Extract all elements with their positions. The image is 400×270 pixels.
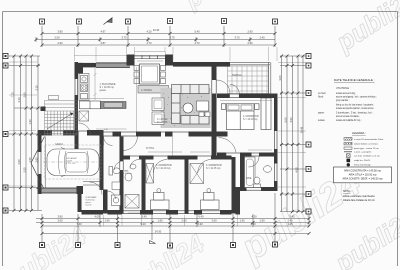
entry door arc xyxy=(90,182,103,195)
room labels xyxy=(55,74,259,180)
interior spine wall segments xyxy=(113,132,122,137)
bedroom3 wardrobe xyxy=(261,98,271,130)
canopy chevron west xyxy=(31,137,45,191)
legend header xyxy=(352,131,366,135)
garage centerline xyxy=(43,161,100,163)
top dimension tick marks xyxy=(35,32,277,47)
legend symbol partition xyxy=(344,147,352,149)
column grid markers top row xyxy=(40,19,278,25)
living media wall xyxy=(189,132,228,137)
svg-text:4.95: 4.95 xyxy=(295,167,299,173)
lintel lines over interior doors xyxy=(104,131,113,133)
svg-text:3.80: 3.80 xyxy=(57,215,63,219)
svg-text:gresie: gresie xyxy=(100,89,107,92)
pier P2 north xyxy=(165,55,173,66)
title block header xyxy=(334,78,375,82)
pier P1 north xyxy=(127,55,135,66)
svg-text:3.60: 3.60 xyxy=(211,219,217,223)
living sofa U xyxy=(172,85,210,125)
window south-east xyxy=(247,187,262,189)
bay window dining xyxy=(135,55,166,57)
north wall window band xyxy=(96,63,130,68)
svg-text:3.60: 3.60 xyxy=(57,219,63,223)
svg-text:La Sud:: La Sud: xyxy=(318,93,326,95)
exterior stairs west xyxy=(45,96,78,136)
title block data table xyxy=(318,87,377,122)
svg-text:3.00: 3.00 xyxy=(278,75,282,81)
svg-text:3.45: 3.45 xyxy=(287,222,293,226)
svg-text:07 HOL: 07 HOL xyxy=(146,147,155,150)
svg-text:2.15: 2.15 xyxy=(34,85,38,91)
svg-text:1.90: 1.90 xyxy=(239,219,245,223)
south-east wall piers xyxy=(235,187,247,191)
svg-text:3.75: 3.75 xyxy=(169,36,175,40)
svg-text:terasa acoperita partial ; sca: terasa acoperita partial ; scara acces xyxy=(336,107,374,110)
row grid markers bottom xyxy=(40,242,278,248)
svg-text:grup sanitar ;: grup sanitar ; xyxy=(336,99,350,102)
svg-text:3.45: 3.45 xyxy=(289,215,295,219)
stair pier xyxy=(41,107,46,112)
nota xyxy=(343,190,375,202)
left dimension labels xyxy=(11,85,39,173)
svg-text:10.30: 10.30 xyxy=(153,28,160,32)
svg-text:ARIA CONSTRUITA = 145.50 mp: ARIA CONSTRUITA = 145.50 mp xyxy=(344,170,382,173)
svg-text:5.00: 5.00 xyxy=(284,117,288,123)
exterior wall east piers xyxy=(274,98,278,132)
right dimension labels xyxy=(278,75,304,173)
svg-text:1.30: 1.30 xyxy=(28,119,32,125)
svg-text:TERASA: TERASA xyxy=(232,74,242,77)
garage west wall xyxy=(38,130,42,190)
svg-text:cos fum, ventilatie cu 2 niv.: cos fum, ventilatie cu 2 niv. xyxy=(354,155,381,158)
legend symbol line xyxy=(344,151,352,153)
svg-text:4.00: 4.00 xyxy=(94,215,100,219)
bedroom2 wardrobe xyxy=(190,164,204,184)
svg-text:LEGENDA :: LEGENDA : xyxy=(352,131,366,135)
garage west window xyxy=(37,152,42,174)
garage door band xyxy=(42,188,77,193)
svg-text:pereti gips - carton 10 cm: pereti gips - carton 10 cm xyxy=(354,147,379,150)
car spec text xyxy=(66,157,78,165)
svg-text:24.30: 24.30 xyxy=(155,230,162,234)
kitchen stove dots xyxy=(81,85,83,87)
terrace north railing xyxy=(230,62,271,93)
dining sideboard xyxy=(138,86,169,94)
top dimension labels xyxy=(54,28,265,45)
bedroom3 bed xyxy=(221,98,271,130)
svg-text:3.80: 3.80 xyxy=(57,30,63,34)
row grid markers left column xyxy=(3,54,8,214)
svg-text:GARAJ: GARAJ xyxy=(55,143,64,146)
exterior wall north-right xyxy=(173,62,230,67)
svg-text:acces terasa circulatie ;: acces terasa circulatie ; xyxy=(336,115,360,118)
svg-text:zidaria fara izolatie de 10 cm: zidaria fara izolatie de 10 cm xyxy=(343,199,375,202)
svg-text:1.55: 1.55 xyxy=(28,157,32,163)
svg-text:4.40: 4.40 xyxy=(250,222,256,226)
bath se sink xyxy=(264,166,272,173)
svg-text:5.40: 5.40 xyxy=(194,30,200,34)
eaves line above north wall xyxy=(74,54,135,56)
bedroom3 nightstands xyxy=(221,104,226,110)
svg-text:7.75: 7.75 xyxy=(11,92,15,98)
WC room west wall xyxy=(103,190,108,214)
bedroom2 bed xyxy=(201,189,220,210)
svg-text:3.70: 3.70 xyxy=(121,36,127,40)
svg-text:publi24: publi24 xyxy=(116,228,210,270)
svg-text:ARIA UTILA = 116.92 mp: ARIA UTILA = 116.92 mp xyxy=(349,174,377,177)
entry glazing band xyxy=(83,182,103,186)
bottom slope symbol xyxy=(150,241,156,244)
svg-text:4.70: 4.70 xyxy=(146,41,152,45)
dining chairs xyxy=(134,66,166,84)
svg-text:3 dormitoare ; 2 bai ; dressin: 3 dormitoare ; 2 bai ; dressing ; hol ; xyxy=(336,112,373,115)
svg-text:4.30: 4.30 xyxy=(251,215,257,219)
svg-text:terasa acces living ;: terasa acces living ; xyxy=(336,92,357,95)
svg-text:parter:: parter: xyxy=(318,112,325,115)
parking outline xyxy=(45,145,102,179)
svg-text:living cu loc de luat masa ; b: living cu loc de luat masa ; bucatarie ; xyxy=(336,104,375,107)
svg-text:2.90: 2.90 xyxy=(57,41,63,45)
svg-text:4.20: 4.20 xyxy=(146,30,152,34)
svg-text:2.55: 2.55 xyxy=(22,167,26,173)
svg-text:6.30: 6.30 xyxy=(197,222,203,226)
axis extension lines interior xyxy=(94,67,173,156)
right dimension ticks xyxy=(280,55,305,214)
svg-text:Nord:: Nord: xyxy=(318,96,324,99)
terrace bottom wall xyxy=(217,94,230,99)
svg-text:1.80: 1.80 xyxy=(157,219,163,223)
svg-text:2.45: 2.45 xyxy=(287,219,293,223)
svg-text:2.60: 2.60 xyxy=(34,157,38,163)
svg-text:5.40: 5.40 xyxy=(141,215,147,219)
legend symbol chimney xyxy=(347,154,351,158)
garage car xyxy=(47,148,99,177)
svg-text:7.40: 7.40 xyxy=(76,222,82,226)
left dimension ticks xyxy=(13,55,40,213)
svg-text:publi24: publi24 xyxy=(330,0,400,58)
svg-text:4.70: 4.70 xyxy=(194,41,200,45)
svg-text:2. DINING: 2. DINING xyxy=(141,89,152,92)
extension lines to chains xyxy=(9,47,306,226)
garage south wall piers xyxy=(38,186,42,194)
kitchen counter west xyxy=(79,74,89,101)
left dimension chains xyxy=(9,56,42,211)
svg-text:2.10: 2.10 xyxy=(104,129,108,131)
svg-text:S = 12.10 mp: S = 12.10 mp xyxy=(156,167,171,170)
svg-text:2.60: 2.60 xyxy=(17,159,21,165)
fridge xyxy=(79,111,89,121)
svg-text:NOTA:: NOTA: xyxy=(343,190,351,193)
svg-text:ARIA CONSTR. DESF. = 145.50 mp: ARIA CONSTR. DESF. = 145.50 mp xyxy=(342,178,383,181)
window east bedroom3 xyxy=(273,131,275,149)
bedroom1 wardrobe xyxy=(146,164,154,184)
bath mid WC xyxy=(109,164,139,208)
svg-text:S = 26.80: S = 26.80 xyxy=(157,121,168,124)
row grid markers right column xyxy=(306,54,311,215)
door arcs xyxy=(79,80,260,199)
interior wall v4 xyxy=(212,62,217,80)
svg-text:z.carm.25+termoizolatie 10cm: z.carm.25+termoizolatie 10cm xyxy=(354,138,383,141)
south wall main piers xyxy=(82,210,104,215)
svg-text:ferme lemn/stalpi: ferme lemn/stalpi xyxy=(354,163,371,166)
svg-text:2.40: 2.40 xyxy=(259,36,265,40)
svg-text:zidarie boltari cu termoiz.: zidarie boltari cu termoiz. xyxy=(354,143,379,146)
legend symbol wall hatched xyxy=(344,138,352,141)
legend texts xyxy=(354,138,383,166)
bath mid shower xyxy=(125,195,139,209)
svg-text:2.90: 2.90 xyxy=(247,41,253,45)
svg-text:stalpi b.a. 25x25: stalpi b.a. 25x25 xyxy=(354,159,371,162)
svg-text:4.97: 4.97 xyxy=(100,30,106,34)
corridor south wall segments xyxy=(121,156,130,160)
bath mid sink xyxy=(125,173,132,181)
svg-text:4.87: 4.87 xyxy=(100,41,106,45)
interior wall v1 hall xyxy=(120,137,124,162)
svg-text:4.10: 4.10 xyxy=(17,97,21,103)
svg-text:h=2.55: h=2.55 xyxy=(86,205,92,207)
bedroom3 south wall segments xyxy=(217,153,226,157)
svg-text:6.40: 6.40 xyxy=(198,215,204,219)
svg-text:DATE TEHNICE GENERALE :: DATE TEHNICE GENERALE : xyxy=(334,78,375,82)
garage north wall piers xyxy=(38,130,53,136)
window west kitchen xyxy=(74,79,76,95)
svg-text:UTILITATILE :: UTILITATILE : xyxy=(336,87,351,90)
exterior wall west piers xyxy=(75,62,79,79)
interior wall v6 bath xyxy=(240,153,245,190)
svg-text:publi24: publi24 xyxy=(180,0,266,15)
bath se WC xyxy=(254,184,261,188)
svg-text:2.50: 2.50 xyxy=(54,36,60,40)
terrace tile grid top-right xyxy=(228,66,269,94)
svg-text:16.45: 16.45 xyxy=(300,126,304,133)
svg-text:S = 4.15 mp: S = 4.15 mp xyxy=(122,173,132,175)
dining table xyxy=(140,64,160,84)
living side table + chairs xyxy=(197,101,211,117)
interior wall v2 xyxy=(142,157,146,214)
top dimension chains xyxy=(36,26,275,47)
bath se tub xyxy=(245,157,272,188)
window north kitchen xyxy=(52,52,277,214)
windows south wall xyxy=(122,210,140,212)
interior wall v5 xyxy=(232,157,236,214)
svg-text:S = 12.15 mp: S = 12.15 mp xyxy=(206,167,221,170)
north arrow symbol xyxy=(104,18,113,25)
armchairs left xyxy=(152,98,164,125)
svg-text:u.usor + parapete: u.usor + parapete xyxy=(354,151,372,154)
svg-text:terasa circulabila 40 mp ;: terasa circulabila 40 mp ; xyxy=(336,119,362,122)
kitchen counter island xyxy=(80,101,127,109)
living round table xyxy=(183,103,193,113)
porch labels xyxy=(86,196,98,207)
bottom dimension ticks xyxy=(41,217,311,235)
svg-text:terasa:: terasa: xyxy=(318,119,325,122)
bottom dimension labels xyxy=(57,215,295,234)
svg-text:cotele exterioare marcheaza: cotele exterioare marcheaza xyxy=(343,195,375,198)
porch west wall vertical xyxy=(78,194,82,212)
svg-text:1.90: 1.90 xyxy=(259,219,265,223)
window east bath xyxy=(273,164,275,182)
garage east wall xyxy=(100,130,104,190)
svg-text:BAIE: BAIE xyxy=(246,177,252,180)
svg-text:3.70: 3.70 xyxy=(234,36,240,40)
bath mid washer xyxy=(112,195,121,206)
garage north wall openings xyxy=(52,130,63,132)
svg-text:4.77 x 1.82: 4.77 x 1.82 xyxy=(66,163,75,165)
svg-text:1.90: 1.90 xyxy=(104,219,110,223)
svg-text:2.90: 2.90 xyxy=(247,30,253,34)
right dimension chains xyxy=(280,56,306,212)
legend symbol solid xyxy=(347,159,351,167)
living rug xyxy=(161,88,211,128)
corner pier north-west xyxy=(75,63,84,74)
wall between se xyxy=(236,187,241,215)
svg-text:2.60: 2.60 xyxy=(181,219,187,223)
bedroom1 bed xyxy=(151,189,170,210)
interior dimension lines xyxy=(80,61,272,213)
svg-text:4.90: 4.90 xyxy=(289,117,293,123)
svg-text:5.20: 5.20 xyxy=(140,222,146,226)
svg-text:S = 13.20 mp: S = 13.20 mp xyxy=(243,118,258,121)
svg-text:acces auto/garaj ; hol ; camer: acces auto/garaj ; hol ; camera tehnica … xyxy=(336,96,377,99)
legend symbol wall dotted xyxy=(344,142,352,145)
svg-text:2.60: 2.60 xyxy=(22,92,26,98)
interior wall v3 xyxy=(185,157,189,214)
area summary box xyxy=(334,167,392,183)
bottom dimension chains xyxy=(36,193,309,242)
